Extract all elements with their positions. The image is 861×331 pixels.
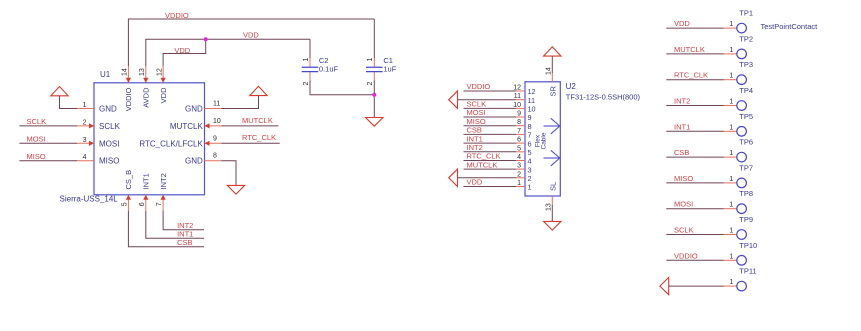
test point TP3 — [724, 60, 753, 84]
test point TP11 — [724, 267, 757, 291]
svg-text:7: 7 — [517, 128, 521, 135]
svg-text:5: 5 — [528, 148, 532, 157]
svg-text:TP7: TP7 — [739, 163, 753, 172]
U2 flex cable arrow lower — [544, 150, 560, 166]
svg-text:INT1: INT1 — [177, 230, 193, 239]
U1 pin 13 AVDD — [139, 66, 151, 108]
net label INT2 at TP4 — [674, 97, 690, 106]
svg-text:VDDIO: VDDIO — [124, 87, 133, 111]
svg-text:VDD: VDD — [243, 31, 259, 40]
svg-text:13: 13 — [545, 203, 552, 211]
svg-text:1: 1 — [729, 150, 733, 157]
wire CSB to TP6 — [666, 156, 724, 158]
svg-text:AVDD: AVDD — [142, 87, 151, 108]
svg-text:Cable: Cable — [540, 132, 547, 149]
net label RTC_CLK at U2 pin 4 — [467, 152, 501, 161]
svg-text:SL: SL — [548, 182, 557, 191]
svg-text:1: 1 — [729, 279, 733, 286]
svg-text:4: 4 — [83, 154, 87, 161]
svg-text:7: 7 — [156, 202, 163, 206]
U1 pin 7 INT2 — [156, 173, 168, 211]
U2 pin 6 — [516, 137, 531, 149]
svg-text:3: 3 — [517, 163, 521, 170]
svg-text:MISO: MISO — [27, 152, 46, 161]
svg-text:MOSI: MOSI — [467, 108, 486, 117]
svg-text:8: 8 — [528, 122, 532, 131]
connector U2 body — [525, 82, 560, 196]
wire U2 pin 13 to ground — [551, 205, 553, 222]
test point TP7 — [724, 163, 753, 187]
net label MUTCLK right — [242, 116, 273, 125]
svg-text:INT1: INT1 — [142, 173, 151, 189]
net label RTC_CLK at TP3 — [674, 71, 708, 80]
wire CSB from U1 pin 5 — [128, 211, 204, 247]
net label VDDIO at U2 pin 12 — [467, 82, 491, 91]
svg-text:12: 12 — [513, 85, 521, 92]
capacitor C1 — [366, 56, 397, 86]
U2 pin 3 — [516, 163, 531, 175]
U1 reference designator — [100, 70, 111, 79]
wire arrow to TP11 — [669, 285, 724, 287]
svg-text:1: 1 — [729, 176, 733, 183]
wire VDDIO rail — [128, 19, 374, 66]
IC U1 body — [94, 83, 205, 195]
offpage connector arrow at U2 pin 11 — [449, 91, 458, 108]
svg-text:INT1: INT1 — [674, 122, 690, 131]
svg-text:TP2: TP2 — [739, 34, 753, 43]
wire MOSI to U2 pin 9 — [464, 116, 517, 118]
power symbol at U2 pin 14 — [544, 47, 561, 56]
wire INT2 to TP4 — [666, 105, 724, 107]
U1 pin 9 RTC_CLK/LFCLK — [139, 135, 221, 148]
svg-text:MUTCLK: MUTCLK — [674, 45, 705, 54]
svg-text:TP8: TP8 — [739, 189, 753, 198]
wire C1 bottom to ground — [373, 80, 375, 117]
svg-text:TestPointContact: TestPointContact — [761, 22, 819, 31]
net label MOSI at U2 pin 9 — [467, 108, 486, 117]
wire CSB to U2 pin 7 — [464, 133, 517, 135]
svg-text:MISO: MISO — [674, 174, 693, 183]
svg-text:INT2: INT2 — [159, 173, 168, 189]
test point TP5 — [724, 112, 753, 136]
wire pin1 to power — [60, 96, 78, 109]
net label SCLK at TP9 — [674, 226, 694, 235]
svg-text:MISO: MISO — [99, 157, 119, 166]
net label VDDIO top rail — [165, 11, 189, 20]
U2 label Flex Cable — [535, 132, 548, 149]
U2 flex cable arrow upper — [544, 118, 560, 134]
svg-text:CSB: CSB — [674, 148, 689, 157]
svg-text:INT2: INT2 — [177, 221, 193, 230]
svg-text:U1: U1 — [100, 70, 111, 79]
wire VDDIO to U2 pin 12 — [464, 90, 517, 92]
TestPointContact label — [761, 22, 819, 31]
power symbol VDD at U1 pin 11 — [250, 86, 267, 95]
net label MOSI at TP8 — [674, 200, 693, 209]
net label VDDIO at TP10 — [674, 251, 698, 260]
net label VDD pin12 branch — [174, 46, 190, 55]
wire VDDIO to TP10 — [666, 259, 724, 261]
wire INT1 from U1 pin 6 — [146, 211, 204, 238]
wire RTC_CLK to U2 pin 4 — [464, 160, 517, 162]
svg-text:8: 8 — [213, 153, 217, 160]
test point TP10 — [724, 241, 757, 265]
svg-text:1: 1 — [517, 180, 521, 187]
wire pin8 to ground — [222, 161, 237, 186]
svg-text:2: 2 — [83, 119, 87, 126]
svg-text:SCLK: SCLK — [99, 122, 121, 131]
U2 pin 13 SL — [545, 182, 557, 211]
svg-text:CSB: CSB — [467, 126, 482, 135]
svg-text:VDD: VDD — [674, 19, 690, 28]
svg-text:TP5: TP5 — [739, 112, 753, 121]
junction dot C1 bottom node — [372, 93, 376, 97]
net label INT1 bottom — [177, 230, 193, 239]
svg-text:INT1: INT1 — [467, 134, 483, 143]
wire SCLK to U2 pin 10 — [464, 107, 517, 109]
svg-text:2: 2 — [528, 174, 532, 183]
wire SCLK — [19, 125, 77, 127]
svg-text:RTC_CLK: RTC_CLK — [674, 71, 708, 80]
svg-text:1: 1 — [528, 183, 532, 192]
svg-text:CSB: CSB — [177, 238, 192, 247]
svg-text:1: 1 — [729, 228, 733, 235]
net label VDD at TP1 — [674, 19, 690, 28]
svg-text:GND: GND — [99, 105, 117, 114]
svg-text:TP10: TP10 — [739, 241, 757, 250]
svg-text:VDDIO: VDDIO — [674, 251, 698, 260]
svg-text:VDDIO: VDDIO — [467, 82, 491, 91]
svg-text:TP1: TP1 — [739, 9, 753, 18]
svg-text:INT2: INT2 — [674, 97, 690, 106]
wire pin11 to power — [222, 96, 259, 109]
wire SCLK to TP9 — [666, 234, 724, 236]
U2 pin 7 — [516, 128, 531, 140]
svg-text:5: 5 — [517, 145, 521, 152]
wire VDD rail to C2 top — [309, 39, 311, 58]
test point TP2 — [724, 34, 753, 58]
svg-text:TP4: TP4 — [739, 86, 753, 95]
U2 pin 1 — [516, 180, 531, 192]
U1 pin 8 GND — [185, 153, 221, 166]
svg-text:3: 3 — [83, 137, 87, 144]
svg-text:1: 1 — [729, 21, 733, 28]
ground symbol at U1 pin 8 — [227, 185, 244, 194]
svg-text:MOSI: MOSI — [99, 139, 119, 148]
wire VDD to TP1 — [666, 27, 724, 29]
U2 pin 8 — [516, 119, 531, 131]
svg-text:RTC_CLK: RTC_CLK — [242, 133, 276, 142]
svg-text:TP3: TP3 — [739, 60, 753, 69]
test point TP4 — [724, 86, 753, 110]
svg-text:2: 2 — [517, 171, 521, 178]
U1 value Sierra-USS_14L — [60, 194, 119, 203]
svg-text:2: 2 — [367, 82, 374, 86]
net label CSB at U2 pin 7 — [467, 126, 482, 135]
svg-text:7: 7 — [528, 131, 532, 140]
U1 pin 5 CS_B — [121, 170, 133, 211]
test point TP1 — [724, 9, 753, 33]
U2 pin 4 — [516, 154, 531, 166]
svg-text:9: 9 — [213, 135, 217, 142]
U1 pin 4 MISO — [77, 154, 119, 166]
wire MUTCLK to TP2 — [666, 53, 724, 55]
offpage connector arrow at U2 pin 2 — [449, 169, 458, 186]
ground symbol below C1 — [366, 118, 383, 127]
svg-text:CS_B: CS_B — [124, 170, 133, 190]
svg-text:11: 11 — [213, 101, 220, 108]
net label INT2 at U2 pin 5 — [467, 143, 483, 152]
wire MISO to TP7 — [666, 182, 724, 184]
svg-text:SCLK: SCLK — [27, 117, 47, 126]
net label SCLK — [27, 117, 47, 126]
U1 pin 11 GND — [185, 101, 221, 114]
svg-text:1: 1 — [303, 58, 310, 62]
U2 pin 2 — [516, 171, 531, 183]
svg-text:11: 11 — [528, 96, 536, 105]
net label MUTCLK at U2 pin 3 — [467, 160, 498, 169]
U1 pin 10 MUTCLK — [170, 118, 222, 131]
svg-text:RTC_CLK/LFCLK: RTC_CLK/LFCLK — [139, 139, 203, 148]
svg-text:TP11: TP11 — [739, 267, 756, 276]
svg-text:MOSI: MOSI — [27, 135, 46, 144]
U2 pin 14 SR — [545, 67, 557, 96]
svg-text:1: 1 — [729, 99, 733, 106]
net label INT1 at U2 pin 6 — [467, 134, 483, 143]
wire power to U2 pin 14 — [551, 56, 553, 73]
wire VDD to U2 pin 1 — [464, 186, 517, 188]
svg-text:VDD: VDD — [467, 178, 483, 187]
svg-text:8: 8 — [517, 119, 521, 126]
wire VDD branch to pin 12 — [163, 39, 206, 66]
net label INT1 at TP5 — [674, 122, 690, 131]
ground symbol below U2 — [544, 221, 561, 230]
svg-text:TP9: TP9 — [739, 215, 753, 224]
svg-text:GND: GND — [185, 157, 203, 166]
svg-text:MISO: MISO — [467, 117, 486, 126]
test point TP9 — [724, 215, 753, 239]
test point TP8 — [724, 189, 753, 213]
wire MISO to U2 pin 8 — [464, 125, 517, 127]
wire arrow to U2 pin 2 — [458, 177, 517, 179]
svg-text:13: 13 — [139, 68, 146, 76]
svg-text:1uF: 1uF — [383, 65, 396, 74]
wire arrow to U2 pin 11 — [458, 99, 517, 101]
svg-text:6: 6 — [139, 202, 146, 206]
U1 pin 6 INT1 — [139, 173, 151, 211]
U2 pin 12 — [513, 85, 535, 97]
svg-text:TP6: TP6 — [739, 138, 753, 147]
net label MISO at TP7 — [674, 174, 693, 183]
wire VDD rail — [146, 39, 310, 66]
svg-text:2: 2 — [303, 82, 310, 86]
U1 pin 1 GND — [77, 102, 117, 114]
svg-text:MUTCLK: MUTCLK — [170, 122, 204, 131]
svg-text:3: 3 — [528, 165, 532, 174]
svg-text:MOSI: MOSI — [674, 200, 693, 209]
junction dot VDD node — [204, 37, 208, 41]
svg-text:1: 1 — [729, 47, 733, 54]
wire MUTCLK right — [222, 125, 279, 127]
svg-text:1: 1 — [729, 202, 733, 209]
net label MUTCLK at TP2 — [674, 45, 705, 54]
svg-text:1: 1 — [729, 73, 733, 80]
svg-text:14: 14 — [545, 67, 552, 75]
svg-text:MUTCLK: MUTCLK — [467, 160, 498, 169]
svg-text:11: 11 — [514, 93, 521, 100]
svg-text:U2: U2 — [566, 82, 577, 91]
svg-text:TF31-12S-0.5SH(800): TF31-12S-0.5SH(800) — [566, 93, 641, 102]
svg-text:6: 6 — [528, 139, 532, 148]
net label VDD at U2 pin 1 — [467, 178, 483, 187]
svg-text:4: 4 — [517, 154, 521, 161]
offpage connector arrow at TP11 — [660, 277, 669, 294]
U1 pin 2 SCLK — [77, 119, 121, 130]
svg-text:MUTCLK: MUTCLK — [242, 116, 273, 125]
wire INT2 to U2 pin 5 — [464, 151, 517, 153]
svg-text:1: 1 — [367, 58, 374, 62]
svg-text:10: 10 — [213, 118, 221, 125]
net label VDD rail — [243, 31, 259, 40]
U2 reference designator — [566, 82, 577, 91]
svg-text:1: 1 — [83, 102, 87, 109]
U2 pin 5 — [516, 145, 531, 157]
svg-text:Sierra-USS_14L: Sierra-USS_14L — [60, 194, 119, 203]
svg-text:SCLK: SCLK — [674, 226, 694, 235]
svg-text:GND: GND — [185, 105, 203, 114]
wire INT1 to TP5 — [666, 130, 724, 132]
wire RTC_CLK right — [222, 142, 280, 144]
svg-text:INT2: INT2 — [467, 143, 483, 152]
wire MOSI — [19, 142, 77, 144]
power symbol VDD at U1 pin 1 — [51, 87, 68, 96]
wire INT2 from U1 pin 7 — [163, 211, 204, 230]
net label MOSI — [27, 135, 46, 144]
net label RTC_CLK right — [242, 133, 276, 142]
svg-text:6: 6 — [517, 137, 521, 144]
U1 pin 3 MOSI — [77, 137, 119, 149]
U2 value TF31-12S-0.5SH(800) — [566, 93, 641, 102]
net label CSB at TP6 — [674, 148, 689, 157]
U1 pin 12 VDD — [156, 66, 168, 103]
svg-text:12: 12 — [528, 87, 536, 96]
svg-text:10: 10 — [513, 102, 521, 109]
svg-text:9: 9 — [517, 111, 521, 118]
svg-text:14: 14 — [122, 68, 129, 76]
wire VDDIO rail to C1 top — [373, 19, 375, 58]
test point TP6 — [724, 138, 753, 162]
wire MOSI to TP8 — [666, 208, 724, 210]
svg-text:1: 1 — [729, 124, 733, 131]
U1 pin 14 VDDIO — [122, 66, 134, 111]
svg-text:5: 5 — [121, 202, 128, 206]
U2 pin 10 — [513, 102, 535, 114]
net label CSB bottom — [177, 238, 192, 247]
net label MISO — [27, 152, 46, 161]
wire INT1 to U2 pin 6 — [464, 142, 517, 144]
svg-text:9: 9 — [528, 113, 532, 122]
net label SCLK at U2 pin 10 — [467, 100, 487, 109]
wire MISO — [19, 160, 77, 162]
svg-text:1: 1 — [729, 253, 733, 260]
net label MISO at U2 pin 8 — [467, 117, 486, 126]
svg-text:0.1uF: 0.1uF — [319, 65, 339, 74]
svg-text:12: 12 — [156, 68, 163, 76]
wire RTC_CLK to TP3 — [666, 79, 724, 81]
capacitor C2 — [302, 56, 339, 86]
wire C2 bottom to C1 bottom — [310, 80, 374, 94]
svg-text:VDD: VDD — [159, 87, 168, 103]
net label INT2 bottom — [177, 221, 193, 230]
svg-text:SR: SR — [549, 85, 558, 96]
U2 pin 9 — [516, 111, 531, 123]
wire MUTCLK to U2 pin 3 — [464, 168, 517, 170]
U2 pin 11 — [514, 93, 535, 105]
